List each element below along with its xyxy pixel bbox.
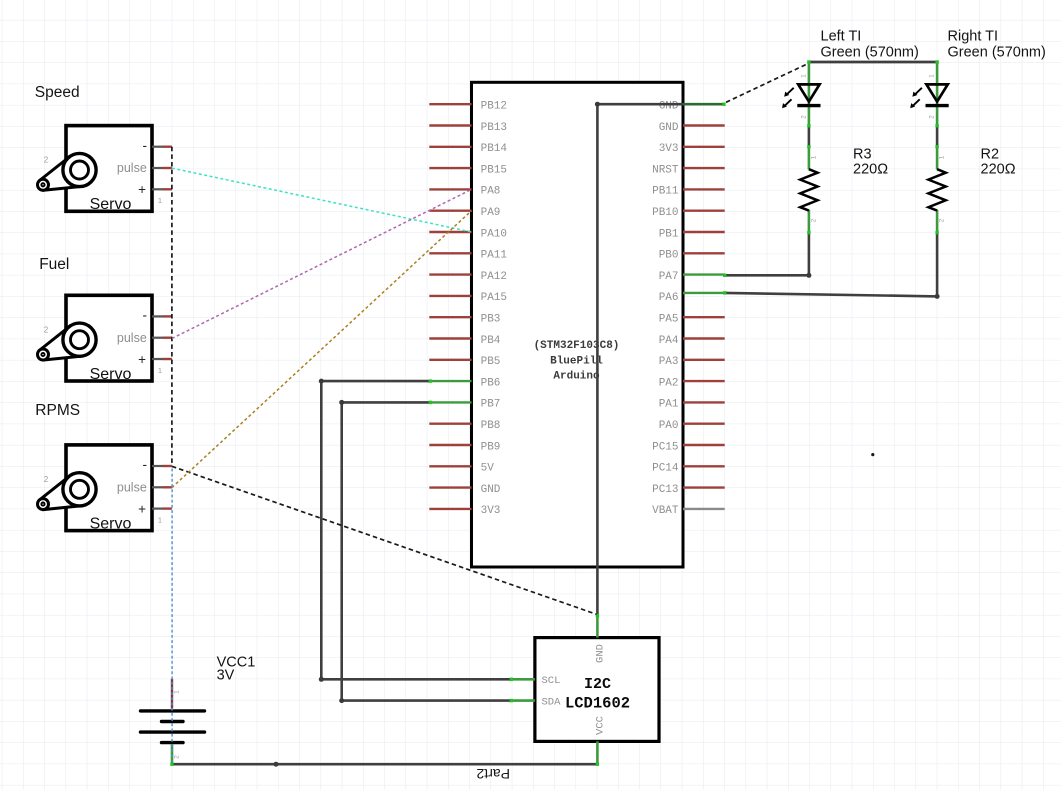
svg-text:1: 1 xyxy=(174,690,181,694)
ratsnest black: servo minus pins bus xyxy=(171,147,173,467)
pin SCL of LCD xyxy=(511,675,561,687)
svg-text:3V3: 3V3 xyxy=(659,143,679,155)
pin PA7 (right 9) xyxy=(659,271,725,283)
svg-text:+: + xyxy=(138,501,146,516)
LCD name label xyxy=(565,676,630,713)
label R3 220&#937; xyxy=(853,147,888,178)
svg-text:SDA: SDA xyxy=(542,696,562,708)
svg-text:NRST: NRST xyxy=(652,164,679,176)
pin PA11 (left 8) xyxy=(429,250,507,262)
svg-text:pulse: pulse xyxy=(117,331,147,345)
svg-text:PB15: PB15 xyxy=(481,164,507,176)
svg-text:PA10: PA10 xyxy=(481,228,507,240)
pin PB8 (left 16) xyxy=(429,420,500,432)
pin labels of M2 xyxy=(44,308,162,383)
pin PA12 (left 9) xyxy=(429,271,507,283)
svg-text:PA3: PA3 xyxy=(659,356,679,368)
svg-text:-: - xyxy=(143,308,148,323)
ratsnest blue: servo plus bus to battery xyxy=(171,469,173,763)
pin PB12 (left 1) xyxy=(429,101,507,113)
svg-text:GND: GND xyxy=(481,484,501,496)
svg-text:-: - xyxy=(143,138,148,153)
label LED2 Right TI xyxy=(948,29,1046,61)
pin PA1 (right 15) xyxy=(659,399,725,411)
pin GND (left 19) xyxy=(429,484,501,496)
svg-text:2: 2 xyxy=(929,115,936,119)
svg-text:PA11: PA11 xyxy=(481,250,508,262)
pin 3V3 (right 3) xyxy=(659,143,725,155)
svg-text:Servo: Servo xyxy=(90,366,132,383)
pin + of M1 xyxy=(152,188,172,190)
svg-text:PB6: PB6 xyxy=(481,377,501,389)
svg-text:PC15: PC15 xyxy=(652,441,678,453)
svg-text:pulse: pulse xyxy=(117,481,147,495)
svg-text:PA7: PA7 xyxy=(659,271,679,283)
svg-text:Part2: Part2 xyxy=(476,766,510,782)
wire PB7 to LCD SDA xyxy=(339,400,513,703)
svg-text:I2C: I2C xyxy=(584,676,611,693)
pin PB7 (left 15) xyxy=(429,399,500,411)
svg-text:PB0: PB0 xyxy=(659,250,679,262)
svg-text:PC14: PC14 xyxy=(652,463,679,475)
svg-text:PB11: PB11 xyxy=(652,186,679,198)
pin PA9 (left 6) xyxy=(429,207,500,219)
svg-text:3V3: 3V3 xyxy=(481,505,501,517)
pin PA10 (left 7) xyxy=(429,228,507,240)
servo horn tip xyxy=(38,179,49,190)
pin PA0 (right 16) xyxy=(659,420,725,432)
svg-text:PB13: PB13 xyxy=(481,122,507,134)
pin - of M3 xyxy=(152,465,172,467)
wire R2 to PA6 xyxy=(723,231,940,299)
servo horn hub xyxy=(63,473,96,506)
pin PB13 (left 2) xyxy=(429,122,507,134)
svg-text:R3: R3 xyxy=(853,147,872,163)
servo horn hub xyxy=(63,153,96,186)
label VCC1 3V xyxy=(217,655,256,684)
svg-text:PA4: PA4 xyxy=(659,335,679,347)
pin pulse of M3 xyxy=(152,486,172,488)
IC name label xyxy=(534,340,620,383)
label Speed xyxy=(35,84,80,101)
pin VCC of LCD xyxy=(595,716,607,764)
servo horn tip xyxy=(38,349,49,360)
servo horn arm xyxy=(40,157,82,190)
pin PB6 (left 14) xyxy=(429,377,500,389)
svg-text:PB8: PB8 xyxy=(481,420,501,432)
svg-text:(STM32F103C8): (STM32F103C8) xyxy=(534,340,620,352)
svg-text:1: 1 xyxy=(939,155,946,159)
svg-text:Right TI: Right TI xyxy=(948,29,999,45)
svg-text:1: 1 xyxy=(810,155,817,159)
label RPMS xyxy=(35,402,80,419)
wire R3 to PA7 xyxy=(723,231,811,278)
LCD module U2 I2C LCD1602 xyxy=(511,615,659,764)
svg-text:BluePill: BluePill xyxy=(550,355,603,367)
LED LED2 Right TI xyxy=(910,62,949,126)
ratsnest cyan: Speed pulse to PA10 xyxy=(172,168,472,232)
pin SDA of LCD xyxy=(511,696,562,708)
pin NRST (right 4) xyxy=(652,164,725,176)
pin pulse of M1 xyxy=(152,167,172,169)
pin PB11 (right 5) xyxy=(652,186,725,198)
pin 5V (left 18) xyxy=(429,463,494,475)
svg-text:PB12: PB12 xyxy=(481,101,507,113)
servo M2 (Fuel) xyxy=(38,295,172,383)
svg-text:2: 2 xyxy=(44,475,49,484)
pin labels of M3 xyxy=(44,457,162,532)
svg-text:Green (570nm): Green (570nm) xyxy=(948,45,1046,61)
pin PB5 (left 13) xyxy=(429,356,500,368)
svg-text:PB1: PB1 xyxy=(659,228,679,240)
pin PA3 (right 13) xyxy=(659,356,725,368)
svg-text:2: 2 xyxy=(800,115,807,119)
svg-text:PA6: PA6 xyxy=(659,292,679,304)
label LED1 Left TI xyxy=(821,29,919,61)
svg-text:Arduino: Arduino xyxy=(553,371,600,383)
pin PB9 (left 17) xyxy=(429,441,500,453)
svg-text:PA1: PA1 xyxy=(659,399,679,411)
pin - of M2 xyxy=(152,315,172,317)
pin GND (right 1) xyxy=(659,101,679,113)
svg-text:GND: GND xyxy=(659,122,679,134)
pin PA2 (right 14) xyxy=(659,377,725,389)
svg-text:PA15: PA15 xyxy=(481,292,507,304)
svg-text:1: 1 xyxy=(800,74,807,78)
svg-text:PB3: PB3 xyxy=(481,314,501,326)
pin GND of LCD xyxy=(595,615,607,663)
pin PA6 (right 10) xyxy=(659,292,725,304)
pin PB15 (left 4) xyxy=(429,164,507,176)
svg-text:220Ω: 220Ω xyxy=(981,162,1016,178)
svg-text:PB4: PB4 xyxy=(481,335,501,347)
svg-text:1: 1 xyxy=(929,74,936,78)
pin PC15 (right 17) xyxy=(652,441,725,453)
svg-text:2: 2 xyxy=(44,325,49,334)
pin PA5 (right 11) xyxy=(659,314,725,326)
svg-text:PB9: PB9 xyxy=(481,441,501,453)
pin - of M1 xyxy=(152,146,172,148)
svg-text:VCC: VCC xyxy=(595,716,607,735)
servo M3 (RPMS) xyxy=(38,445,172,533)
pin PB14 (left 3) xyxy=(429,143,507,155)
wire LED2 cathode to R2 xyxy=(935,124,938,148)
wire PB6 to LCD SCL xyxy=(319,379,513,682)
svg-text:2: 2 xyxy=(174,755,181,759)
pin PB4 (left 12) xyxy=(429,335,501,347)
pin + of M3 xyxy=(152,508,172,510)
svg-text:RPMS: RPMS xyxy=(35,402,80,419)
svg-text:1: 1 xyxy=(158,196,162,205)
wire battery + to LCD VCC xyxy=(170,762,599,767)
svg-text:Fuel: Fuel xyxy=(39,256,69,273)
svg-text:+: + xyxy=(138,352,146,367)
svg-text:R2: R2 xyxy=(981,147,1000,163)
ratsnest purple: Fuel pulse to PA8 xyxy=(172,189,472,338)
svg-text:220Ω: 220Ω xyxy=(853,162,888,178)
stray dot xyxy=(871,453,874,456)
svg-text:pulse: pulse xyxy=(117,161,147,175)
pin GND (right 2) xyxy=(659,122,725,134)
battery VCC1 3V xyxy=(141,679,205,764)
pin PB0 (right 8) xyxy=(659,250,725,262)
svg-text:+: + xyxy=(138,182,146,197)
svg-text:2: 2 xyxy=(939,218,946,222)
pin pulse of M2 xyxy=(152,337,172,339)
svg-text:Speed: Speed xyxy=(35,84,80,101)
svg-text:Green (570nm): Green (570nm) xyxy=(821,45,919,61)
LED LED1 Left TI xyxy=(782,62,821,126)
ratsnest orange: RPMS pulse to PA9 xyxy=(172,211,472,488)
svg-text:PA9: PA9 xyxy=(481,207,501,219)
servo horn hub xyxy=(63,323,96,356)
servo M1 (Speed) xyxy=(38,126,172,214)
svg-text:Servo: Servo xyxy=(90,196,132,213)
svg-text:PB7: PB7 xyxy=(481,399,501,411)
pin 3V3 (left 20) xyxy=(429,505,500,517)
ratsnest black: GND wire end to LED1 anode xyxy=(726,64,808,103)
pin PA15 (left 10) xyxy=(429,292,507,304)
resistor R2 220&#937; xyxy=(928,147,945,233)
wire LED1 cathode to R3 xyxy=(807,124,810,148)
svg-text:SCL: SCL xyxy=(542,675,561,687)
svg-text:VBAT: VBAT xyxy=(652,505,679,517)
svg-text:GND: GND xyxy=(595,644,607,663)
label Fuel xyxy=(39,256,69,273)
svg-text:PA0: PA0 xyxy=(659,420,679,432)
svg-text:PA5: PA5 xyxy=(659,314,679,326)
svg-text:1: 1 xyxy=(158,515,162,524)
servo horn tip xyxy=(38,499,49,510)
svg-text:2: 2 xyxy=(44,156,49,165)
pin VBAT (right 20) xyxy=(652,505,725,517)
svg-text:PA12: PA12 xyxy=(481,271,507,283)
LED emission arrows xyxy=(912,88,922,97)
label R2 220&#937; xyxy=(981,147,1016,178)
pin PC13 (right 19) xyxy=(652,484,725,496)
wire GND bus: IC GND (top right) to LCD GND xyxy=(595,102,726,618)
pin PB10 (right 6) xyxy=(652,207,725,219)
svg-text:PA8: PA8 xyxy=(481,186,501,198)
resistor R3 220&#937; xyxy=(800,147,817,233)
pin PC14 (right 18) xyxy=(652,463,725,475)
svg-text:PB10: PB10 xyxy=(652,207,678,219)
pin PA4 (right 12) xyxy=(659,335,725,347)
pin PA8 (left 5) xyxy=(429,186,500,198)
svg-text:Left TI: Left TI xyxy=(821,29,862,45)
pin labels of M1 xyxy=(44,138,162,213)
svg-text:PB5: PB5 xyxy=(481,356,501,368)
svg-text:Servo: Servo xyxy=(90,516,132,533)
servo horn arm xyxy=(40,327,82,360)
svg-text:5V: 5V xyxy=(481,463,495,475)
svg-text:PB14: PB14 xyxy=(481,143,508,155)
svg-text:2: 2 xyxy=(810,218,817,222)
svg-text:PC13: PC13 xyxy=(652,484,678,496)
svg-text:3V: 3V xyxy=(217,668,235,684)
svg-text:LCD1602: LCD1602 xyxy=(565,695,630,713)
svg-text:-: - xyxy=(143,457,148,472)
svg-text:1: 1 xyxy=(158,366,162,375)
servo horn arm xyxy=(40,476,82,509)
IC U1 STM32F103C8 BluePill xyxy=(429,82,724,567)
svg-text:PA2: PA2 xyxy=(659,377,679,389)
pin + of M2 xyxy=(152,358,172,360)
wire LED anode bus (LED1 to LED2 tops) xyxy=(807,60,939,63)
label Part2 (rotated) xyxy=(476,766,510,782)
pin PB3 (left 11) xyxy=(429,314,500,326)
ratsnest black: RPMS minus to LCD GND xyxy=(172,466,597,614)
LED emission arrows xyxy=(784,88,794,97)
svg-text:GND: GND xyxy=(659,101,679,113)
pin PB1 (right 7) xyxy=(659,228,725,240)
